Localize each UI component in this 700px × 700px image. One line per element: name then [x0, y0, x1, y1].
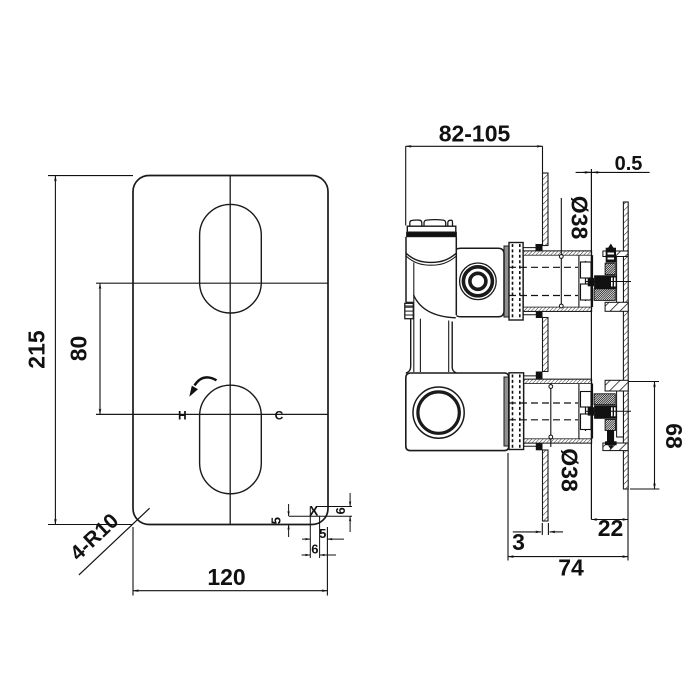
svg-text:Ø38: Ø38: [557, 448, 583, 492]
svg-text:Ø38: Ø38: [567, 196, 593, 240]
svg-text:5: 5: [269, 517, 284, 524]
svg-text:X: X: [309, 503, 318, 518]
svg-text:6: 6: [311, 542, 318, 557]
svg-text:80: 80: [66, 336, 92, 362]
svg-text:120: 120: [207, 564, 245, 590]
svg-text:6: 6: [333, 507, 348, 514]
svg-text:H: H: [178, 409, 187, 423]
svg-text:68: 68: [661, 423, 687, 449]
svg-text:22: 22: [598, 515, 624, 541]
svg-text:C: C: [275, 409, 284, 423]
svg-text:74: 74: [558, 555, 584, 581]
svg-text:5: 5: [319, 526, 326, 541]
svg-text:0.5: 0.5: [615, 153, 643, 175]
svg-text:82-105: 82-105: [439, 121, 511, 147]
svg-text:3: 3: [512, 529, 525, 555]
svg-text:215: 215: [23, 330, 49, 369]
